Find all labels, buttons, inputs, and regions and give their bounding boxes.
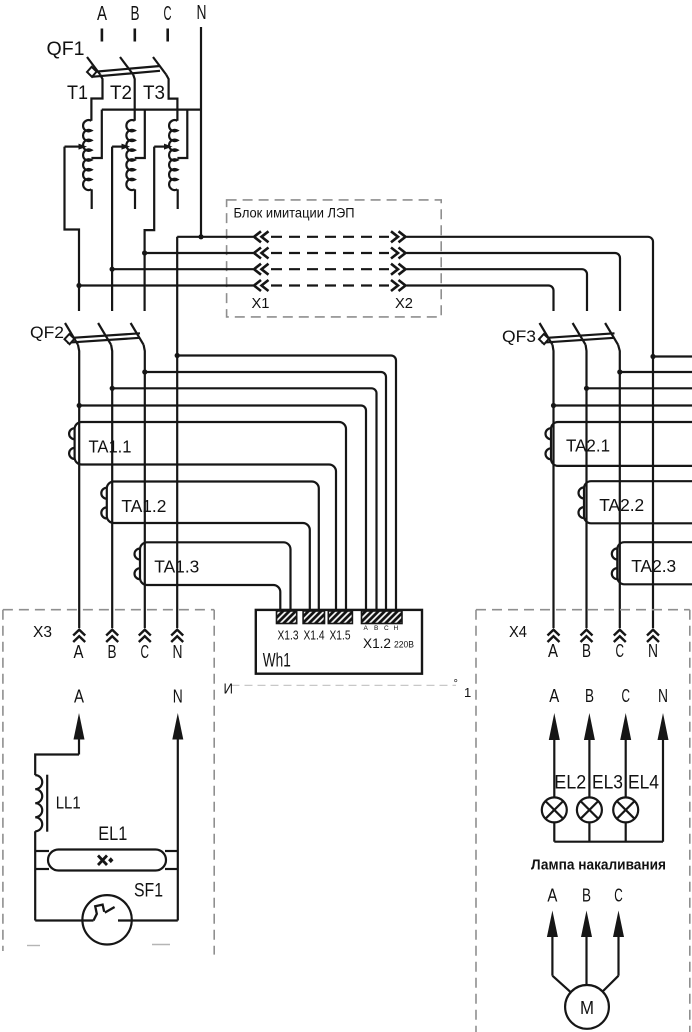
- svg-text:220В: 220В: [394, 640, 414, 651]
- TA2.2 secondary bumps: [578, 487, 584, 518]
- svg-text:TA1.2: TA1.2: [121, 496, 166, 516]
- fluorescent group A arrow: [74, 713, 85, 755]
- svg-text:A: A: [548, 641, 558, 661]
- lamp group C arrow: [620, 713, 631, 797]
- current transformer TA1.3 loop and secondary to X1.3: [140, 542, 291, 611]
- svg-text:C: C: [616, 641, 625, 661]
- svg-text:В: В: [374, 625, 378, 632]
- svg-text:SF1: SF1: [134, 881, 163, 902]
- wire phase B input stub: [134, 29, 137, 42]
- TA1.1 label: [89, 437, 132, 457]
- meter Wh1 label: [263, 651, 291, 672]
- svg-text:Н: Н: [394, 625, 399, 632]
- node X4 label: [509, 624, 527, 641]
- X3 terminal labels A B C N: [74, 642, 183, 662]
- Wh1 terminal block X1.4: [303, 611, 324, 624]
- X1 side left-pointing double chevrons: [254, 231, 269, 291]
- svg-text:N: N: [648, 641, 658, 661]
- wire QF1 pole C to T3 coil: [166, 75, 177, 121]
- T3 wiper arrow tap: [154, 144, 172, 150]
- wire motor A lead diagonal: [552, 976, 570, 993]
- X3 terminal N chevron arrow: [171, 630, 183, 642]
- lamp EL4: [613, 797, 638, 822]
- wire T1 wiper to QF2 pole A: [65, 147, 80, 311]
- caption remnant degree and 1: [454, 678, 472, 700]
- svg-text:N: N: [197, 2, 207, 24]
- motor group node labels A B C: [547, 886, 622, 906]
- wire lamp group neutral bus: [554, 841, 663, 843]
- wire line1 N (solid left, to QF3 side N): [177, 236, 253, 238]
- X3 terminal C chevron arrow: [139, 630, 151, 642]
- node N (phase N top label): [197, 2, 207, 24]
- T1 wiper arrow tap: [65, 144, 88, 150]
- transformer T1 label: [67, 83, 88, 104]
- wire EL2 bottom to bus: [553, 822, 555, 841]
- wire A arrow to ballast LL1: [35, 755, 79, 776]
- svg-text:QF1: QF1: [47, 39, 85, 60]
- svg-text:QF2: QF2: [30, 323, 64, 342]
- junction dot right B branch: [584, 386, 589, 391]
- X1.5 label: [330, 629, 351, 643]
- wire A tap to meter X1.2-A: [79, 406, 366, 612]
- svg-text:LL1: LL1: [56, 793, 81, 813]
- ballast choke LL1: [35, 775, 42, 831]
- breaker QF2 label: [30, 323, 64, 342]
- TA2.3 label: [631, 556, 676, 576]
- wire tube left pins: [35, 851, 49, 869]
- wire N tap to meter X1.2-H: [177, 356, 396, 612]
- svg-text:QF3: QF3: [502, 327, 536, 346]
- wire LL1 to lamp and starter loop left: [34, 831, 36, 920]
- breaker QF1 label: [47, 39, 85, 60]
- svg-text:X1.2: X1.2: [363, 635, 391, 651]
- transformer T3 coil: [169, 120, 177, 190]
- wire C tap to meter X1.2-C: [145, 372, 386, 611]
- svg-text:C: C: [622, 686, 631, 706]
- wire neutral rail (coil midpoints to N): [102, 108, 201, 110]
- wire line2 C (solid parts): [145, 252, 253, 254]
- svg-text:B: B: [108, 642, 117, 662]
- wire line2 dashed segment: [271, 252, 389, 254]
- X4 terminal C chevron arrow: [614, 630, 626, 642]
- caption incandescent lamp: [531, 858, 666, 874]
- wire QF3 pole B output to X4 B: [584, 345, 587, 628]
- wire T3 coil midpoint to neutral rail: [177, 110, 187, 158]
- svg-text:T3: T3: [143, 83, 165, 104]
- junction dot right A branch: [551, 403, 556, 408]
- TA1.3 secondary bumps: [135, 549, 141, 580]
- wire line3 dashed segment: [271, 268, 389, 270]
- LEP imitation block dashed box: [227, 200, 442, 317]
- svg-text:C: C: [141, 642, 150, 662]
- wire neutral left trunk to X3 N: [176, 237, 178, 628]
- wire T3 coil bottom stub: [177, 189, 179, 209]
- motor group B arrow: [581, 911, 592, 986]
- X3 dashed enclosure: [3, 610, 214, 955]
- svg-text:TA2.3: TA2.3: [631, 556, 676, 576]
- wire motor C lead diagonal: [603, 976, 619, 992]
- junction dot A tap: [77, 403, 82, 408]
- current transformer TA1.1 loop and secondary to X1.5: [75, 422, 346, 611]
- svg-text:B: B: [582, 886, 591, 906]
- svg-text:A: A: [74, 642, 84, 662]
- junction dot N joins line1: [198, 234, 203, 239]
- node X2 label: [395, 295, 413, 312]
- lamp EL4 label: [628, 773, 659, 794]
- svg-text:X1.5: X1.5: [330, 629, 351, 643]
- wire T1 coil bottom stub: [91, 189, 93, 209]
- transformer T3 label: [143, 83, 165, 104]
- TA1.2 label: [121, 496, 166, 516]
- svg-text:EL3: EL3: [592, 773, 623, 794]
- motor group A arrow: [547, 911, 558, 976]
- Wh1 terminal block X1.5: [328, 611, 352, 624]
- transformer T1 coil: [83, 120, 91, 190]
- svg-text:C: C: [614, 886, 623, 906]
- wire line1 dashed segment: [271, 236, 389, 238]
- TA1.3 label: [154, 557, 199, 577]
- X4 dashed enclosure: [476, 610, 690, 1032]
- transformer T2 label: [110, 83, 132, 104]
- wire EL4 bottom to bus: [625, 822, 627, 841]
- junction dot C tap: [142, 369, 147, 374]
- svg-text:TA2.2: TA2.2: [599, 495, 644, 515]
- svg-text:C: C: [164, 3, 172, 25]
- LL1 label: [56, 793, 81, 813]
- wire B tap to meter X1.2-B: [112, 388, 376, 611]
- svg-text:A: A: [97, 3, 107, 25]
- svg-text:EL2: EL2: [554, 773, 586, 794]
- TA1.2 secondary bumps: [101, 488, 107, 519]
- svg-text:Лампа накаливания: Лампа накаливания: [531, 858, 666, 874]
- motor M: [565, 985, 609, 1029]
- svg-text:N: N: [173, 642, 183, 662]
- wire QF1 pole B to T2 coil: [133, 75, 135, 121]
- EL1 label: [98, 824, 127, 845]
- lamp EL2: [542, 797, 567, 822]
- svg-text:1: 1: [464, 685, 471, 700]
- fluorescent group node N label: [173, 687, 183, 707]
- lamp group A arrow: [549, 713, 560, 797]
- wire line4 dashed segment: [271, 284, 389, 286]
- svg-text:X1.4: X1.4: [304, 629, 325, 643]
- energy meter Wh1 box: [256, 610, 422, 674]
- current transformer TA2.2 loop (open to right edge): [584, 481, 692, 523]
- node X1 label: [252, 295, 270, 312]
- fluorescent group node A label: [74, 687, 84, 707]
- TA2.2 label: [599, 495, 644, 515]
- junction dot right N branch: [650, 354, 655, 359]
- current transformer TA1.2 loop and secondary to X1.4: [107, 482, 319, 612]
- X3 enclosure bottom remnants: [27, 945, 170, 946]
- TA2.1 secondary bumps: [546, 428, 552, 459]
- transformer T2 coil: [126, 120, 134, 190]
- wire phase C input stub: [166, 29, 169, 42]
- breaker QF3: [539, 323, 618, 345]
- svg-text:X1: X1: [252, 295, 270, 312]
- TA2.3 secondary bumps: [612, 548, 618, 579]
- wire QF2 pole A output to X3 A: [78, 345, 79, 628]
- wire T1 coil midpoint to neutral rail: [91, 110, 101, 158]
- lamp EL3 label: [592, 773, 623, 794]
- svg-text:A: A: [549, 686, 559, 706]
- wire QF2 pole C output to X3 C: [144, 345, 145, 628]
- wire right A branch to edge: [554, 404, 692, 406]
- svg-text:TA1.3: TA1.3: [154, 557, 199, 577]
- svg-text:T2: T2: [110, 83, 132, 104]
- fluorescent lamp EL1 tube: [48, 850, 166, 871]
- wire line3 B (solid parts): [112, 268, 253, 270]
- X4 terminal B chevron arrow: [581, 630, 593, 642]
- TA2.1 label: [566, 436, 610, 456]
- starter SF1: [82, 895, 131, 944]
- junction dot B tap: [110, 386, 115, 391]
- wire QF3 pole A output to X4 A: [553, 345, 554, 628]
- wire right C branch to edge: [620, 371, 692, 373]
- svg-text:B: B: [585, 686, 594, 706]
- svg-text:X2: X2: [395, 295, 413, 312]
- svg-text:А: А: [364, 625, 369, 632]
- TA1.1 secondary bumps: [69, 428, 74, 459]
- SF1 contact symbol: [83, 905, 132, 921]
- node C (phase C top label): [164, 3, 172, 25]
- X1.2 label: [363, 635, 414, 651]
- fluorescent group N arrow: [172, 713, 183, 851]
- X3 terminal A chevron arrow: [73, 630, 85, 642]
- wire T2 coil bottom stub: [134, 189, 136, 209]
- lamp group N arrow: [658, 713, 669, 842]
- lamp EL2 label: [554, 773, 586, 794]
- svg-text:EL4: EL4: [628, 773, 659, 794]
- svg-text:TA2.1: TA2.1: [566, 436, 610, 456]
- svg-text:B: B: [131, 3, 140, 25]
- svg-text:T1: T1: [67, 83, 88, 104]
- X1.4 label: [304, 629, 325, 643]
- svg-text:TA1.1: TA1.1: [89, 437, 132, 457]
- svg-text:X4: X4: [509, 624, 527, 641]
- lamp EL3: [577, 797, 602, 822]
- svg-text:°: °: [454, 678, 458, 690]
- node X3 label: [33, 624, 52, 641]
- motor group C arrow: [613, 911, 624, 976]
- junction dot line2 on pole C lead: [142, 250, 147, 255]
- LEP imitation block title: [234, 206, 355, 221]
- SF1 label: [134, 881, 163, 902]
- wire QF3 pole C output to X4 C: [618, 345, 620, 628]
- EL1 tube interior lamp symbol: [98, 856, 107, 866]
- svg-text:Wh1: Wh1: [263, 651, 291, 672]
- svg-text:С: С: [384, 625, 389, 632]
- breaker QF2: [65, 323, 144, 345]
- wire phase A input stub: [101, 29, 104, 42]
- node B (phase B top label): [131, 3, 140, 25]
- X3 terminal B chevron arrow: [106, 630, 118, 642]
- breaker QF3 label: [502, 327, 536, 346]
- X4 terminal N chevron arrow: [647, 630, 659, 642]
- X4 terminal A chevron arrow: [548, 630, 560, 642]
- junction dot line4 on pole A lead: [76, 283, 81, 288]
- T2 wiper arrow tap: [112, 144, 130, 150]
- svg-text:N: N: [658, 686, 668, 706]
- wire T2 coil midpoint to neutral rail: [135, 110, 145, 158]
- svg-text:X3: X3: [33, 624, 52, 641]
- wire N side down to starter loop: [177, 851, 179, 921]
- svg-text:М: М: [580, 998, 594, 1018]
- X1.2 pin letters A B C H: [364, 625, 399, 632]
- svg-text:И: И: [224, 681, 234, 698]
- X1.3 label: [278, 629, 299, 643]
- wire right N branch to edge: [653, 355, 692, 357]
- wire T2 wiper to QF2 pole B: [111, 147, 113, 311]
- svg-text:Блок имитации ЛЭП: Блок имитации ЛЭП: [234, 206, 355, 221]
- svg-text:A: A: [547, 886, 557, 906]
- junction dot right C branch: [617, 369, 622, 374]
- svg-text:B: B: [582, 641, 591, 661]
- X2 side right-pointing double chevrons: [391, 231, 406, 291]
- LL1 core bar: [46, 775, 48, 832]
- current transformer TA2.3 loop (open to right edge): [617, 542, 692, 584]
- lamp group node labels A B C N: [549, 686, 668, 706]
- node A (phase A top label): [97, 3, 107, 25]
- motor M letter: [580, 998, 594, 1018]
- junction dot N tap: [175, 353, 180, 358]
- current transformer TA2.1 loop (open to right edge): [551, 422, 692, 466]
- faint caption line under Wh1: [232, 684, 457, 686]
- wire neutral N vertical (top to LEP block line): [200, 27, 202, 237]
- caption remnant letter И: [224, 681, 234, 698]
- svg-text:X1.3: X1.3: [278, 629, 299, 643]
- svg-text:A: A: [74, 687, 84, 707]
- svg-text:N: N: [173, 687, 183, 707]
- wire QF2 pole B output to X3 B: [111, 345, 112, 628]
- wire T3 wiper to QF2 pole C: [145, 147, 155, 311]
- wire starter loop bottom: [35, 919, 178, 921]
- lamp group B arrow: [584, 713, 595, 797]
- junction dot line3 on pole B lead: [110, 267, 115, 272]
- wire EL3 bottom to bus: [588, 822, 590, 841]
- svg-text:EL1: EL1: [98, 824, 127, 845]
- Wh1 terminal block X1.2: [362, 611, 403, 624]
- wire tube right pins: [165, 851, 178, 869]
- Wh1 terminal block X1.3: [277, 611, 297, 624]
- X4 terminal labels A B C N: [548, 641, 658, 661]
- breaker QF1: [87, 57, 166, 77]
- wire right B branch to edge: [587, 387, 692, 389]
- wire line4 A (solid parts): [79, 284, 253, 286]
- wire QF1 pole A to T1 coil: [91, 75, 102, 121]
